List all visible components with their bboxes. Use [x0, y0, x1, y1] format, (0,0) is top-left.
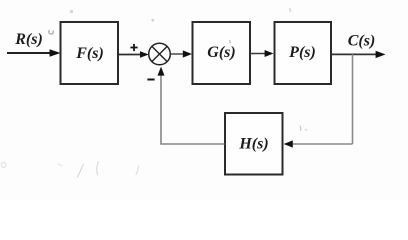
- summing junction S1: [149, 43, 171, 65]
- scan noise marks: [1, 9, 307, 178]
- block F1 F(s): [61, 22, 119, 84]
- wire G(s) to P(s): [251, 50, 274, 57]
- svg-text:R(s): R(s): [14, 31, 43, 48]
- node takeoff point / wire down from output: [352, 54, 354, 144]
- svg-text:H(s): H(s): [238, 136, 268, 153]
- svg-text:P(s): P(s): [288, 44, 316, 61]
- wire summing junction to G(s): [171, 50, 192, 57]
- block H1 H(s): [225, 113, 283, 175]
- block P1 P(s): [275, 22, 332, 84]
- minus sign: [147, 79, 154, 81]
- svg-text:F(s): F(s): [75, 45, 104, 62]
- block G1 G(s): [193, 22, 251, 84]
- wire feedback into H(s): [284, 140, 353, 147]
- wire F(s) to summing junction: [119, 51, 149, 58]
- svg-text:G(s): G(s): [207, 44, 235, 61]
- svg-text:C(s): C(s): [348, 33, 376, 50]
- wire input arrow R(s) to F(s): [7, 49, 61, 57]
- wire output P(s) to C(s) arrow: [332, 51, 386, 58]
- wire feedback H(s) to summing junction: [158, 67, 225, 144]
- plus sign: [130, 44, 137, 51]
